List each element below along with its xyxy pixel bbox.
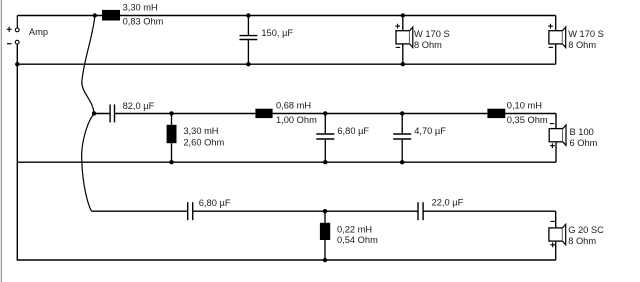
svg-text:3,30 mH: 3,30 mH — [123, 3, 158, 13]
node junction mid bottom at L2 — [169, 160, 173, 164]
node junction mid top at C3 — [323, 111, 327, 115]
wire amp plus lead — [16, 16, 18, 29]
svg-text:8 Ohm: 8 Ohm — [414, 40, 442, 50]
capacitor C6 22,0 uF series — [418, 202, 423, 220]
svg-text:8 Ohm: 8 Ohm — [568, 236, 596, 246]
wire curved feed from input node — [82, 16, 95, 212]
node junction top rail at curve — [93, 13, 97, 17]
node junction bottom rail at L5 — [323, 258, 327, 262]
speaker G 20 SC minus sign — [551, 220, 555, 222]
node junction second rail left — [15, 62, 19, 66]
svg-text:150, µF: 150, µF — [261, 28, 293, 38]
speaker 2 minus sign — [549, 46, 553, 48]
speaker G 20 SC plus sign — [550, 242, 555, 247]
svg-text:8 Ohm: 8 Ohm — [568, 40, 596, 50]
wire second rail — [17, 63, 556, 65]
capacitor C3 6,80 uF shunt — [316, 113, 334, 162]
node junction mid top at L2 — [169, 111, 173, 115]
svg-text:0,22 mH: 0,22 mH — [337, 224, 372, 234]
svg-text:B 100: B 100 — [570, 127, 594, 137]
svg-text:82,0 µF: 82,0 µF — [123, 101, 155, 111]
speaker W 170 S first — [396, 16, 413, 65]
node junction mid bottom at C4 — [400, 160, 404, 164]
node junction tweeter wire at L5 — [323, 209, 327, 213]
amp plus sign — [7, 27, 12, 32]
svg-text:G 20 SC: G 20 SC — [568, 225, 604, 235]
capacitor C2 82 uF series — [110, 104, 114, 122]
svg-text:W 170 S: W 170 S — [414, 29, 450, 39]
speaker B 100 minus sign — [550, 123, 554, 125]
svg-text:W 170 S: W 170 S — [568, 29, 604, 39]
inductor L5 0,22 mH shunt — [320, 211, 330, 260]
left window border — [0, 0, 2, 282]
speaker 1 minus sign — [396, 46, 400, 48]
wire top rail — [17, 15, 555, 17]
svg-text:0,68 mH: 0,68 mH — [276, 100, 311, 110]
capacitor C1 150 uF shunt — [240, 16, 258, 65]
capacitor C5 6,80 uF series tweeter — [188, 202, 193, 220]
speaker 1 plus sign — [395, 24, 400, 29]
node junction second rail at C1 — [246, 62, 250, 66]
wire tweeter band — [92, 211, 556, 228]
node junction top rail at C1 — [246, 13, 250, 17]
speaker 2 plus sign — [548, 24, 553, 29]
speaker G 20 SC — [549, 224, 566, 260]
node junction mid band at curve — [92, 111, 96, 115]
svg-text:0,83 Ohm: 0,83 Ohm — [123, 17, 164, 27]
node junction mid top at C4 — [400, 111, 404, 115]
amp minus sign — [7, 43, 12, 45]
svg-text:6,80 µF: 6,80 µF — [337, 126, 369, 136]
svg-text:22,0 µF: 22,0 µF — [432, 197, 464, 207]
svg-text:4,70 µF: 4,70 µF — [414, 126, 446, 136]
wire mid band top — [94, 114, 556, 129]
svg-text:0,10 mH: 0,10 mH — [507, 100, 542, 110]
wire bottom rail — [17, 44, 555, 260]
svg-text:Amp: Amp — [29, 27, 48, 37]
svg-text:3,30 mH: 3,30 mH — [183, 126, 218, 136]
svg-text:6,80 µF: 6,80 µF — [199, 198, 231, 208]
speaker B 100 — [549, 125, 566, 162]
node junction top rail at speaker 1 — [401, 13, 405, 17]
amp minus terminal — [15, 40, 19, 44]
svg-text:1,00 Ohm: 1,00 Ohm — [276, 115, 317, 125]
svg-text:0,35 Ohm: 0,35 Ohm — [507, 115, 548, 125]
amp plus terminal — [15, 28, 19, 32]
wire mid band bottom rail — [17, 161, 556, 163]
svg-text:0,54 Ohm: 0,54 Ohm — [337, 235, 378, 245]
capacitor C4 4,70 uF shunt — [393, 113, 411, 162]
node junction mid bottom at C3 — [323, 160, 327, 164]
svg-text:2,60 Ohm: 2,60 Ohm — [183, 138, 224, 148]
speaker W 170 S second — [549, 16, 566, 65]
inductor L4 0,10 mH series — [487, 109, 505, 118]
inductor L3 0,68 mH series — [255, 109, 272, 118]
node junction second rail at speaker 1 — [401, 62, 405, 66]
svg-text:6 Ohm: 6 Ohm — [570, 138, 598, 148]
inductor L2 3,30 mH shunt — [167, 113, 177, 162]
inductor L1 3,30 mH series — [102, 10, 120, 21]
speaker B 100 plus sign — [550, 143, 555, 148]
